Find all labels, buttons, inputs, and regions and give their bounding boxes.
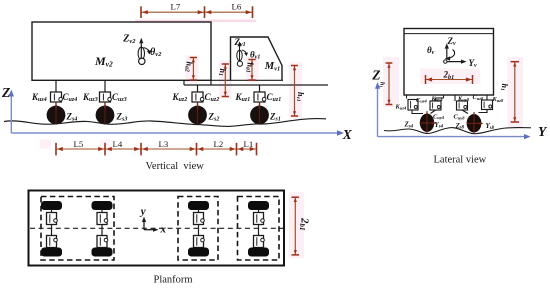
svg-text:L6: L6 <box>232 1 242 11</box>
svg-text:L5: L5 <box>74 139 84 149</box>
svg-text:L3: L3 <box>159 139 169 149</box>
svg-text:L1: L1 <box>244 139 254 149</box>
svg-text:x: x <box>160 224 167 236</box>
svg-text:Kuz4: Kuz4 <box>395 104 407 111</box>
svg-text:Z: Z <box>1 85 10 100</box>
svg-text:Cuz4: Cuz4 <box>416 97 427 104</box>
svg-text:X: X <box>342 127 353 142</box>
svg-text:Cuy4: Cuy4 <box>433 113 445 120</box>
svg-text:L7: L7 <box>171 1 181 11</box>
svg-text:Z: Z <box>371 68 380 83</box>
svg-text:L4: L4 <box>113 139 123 149</box>
svg-text:y: y <box>139 206 146 218</box>
svg-text:Cuz8: Cuz8 <box>473 94 484 101</box>
svg-text:Vertical view: Vertical view <box>146 161 205 172</box>
svg-text:Planform: Planform <box>154 275 193 286</box>
svg-text:Kuy8: Kuy8 <box>457 95 470 102</box>
svg-text:L2: L2 <box>214 139 224 149</box>
svg-text:h1: h1 <box>379 82 385 88</box>
svg-text:Kuz8: Kuz8 <box>492 96 504 103</box>
svg-text:Lateral view: Lateral view <box>434 155 487 166</box>
svg-text:Kuy4: Kuy4 <box>431 95 444 102</box>
svg-text:Cuy8: Cuy8 <box>454 114 466 121</box>
